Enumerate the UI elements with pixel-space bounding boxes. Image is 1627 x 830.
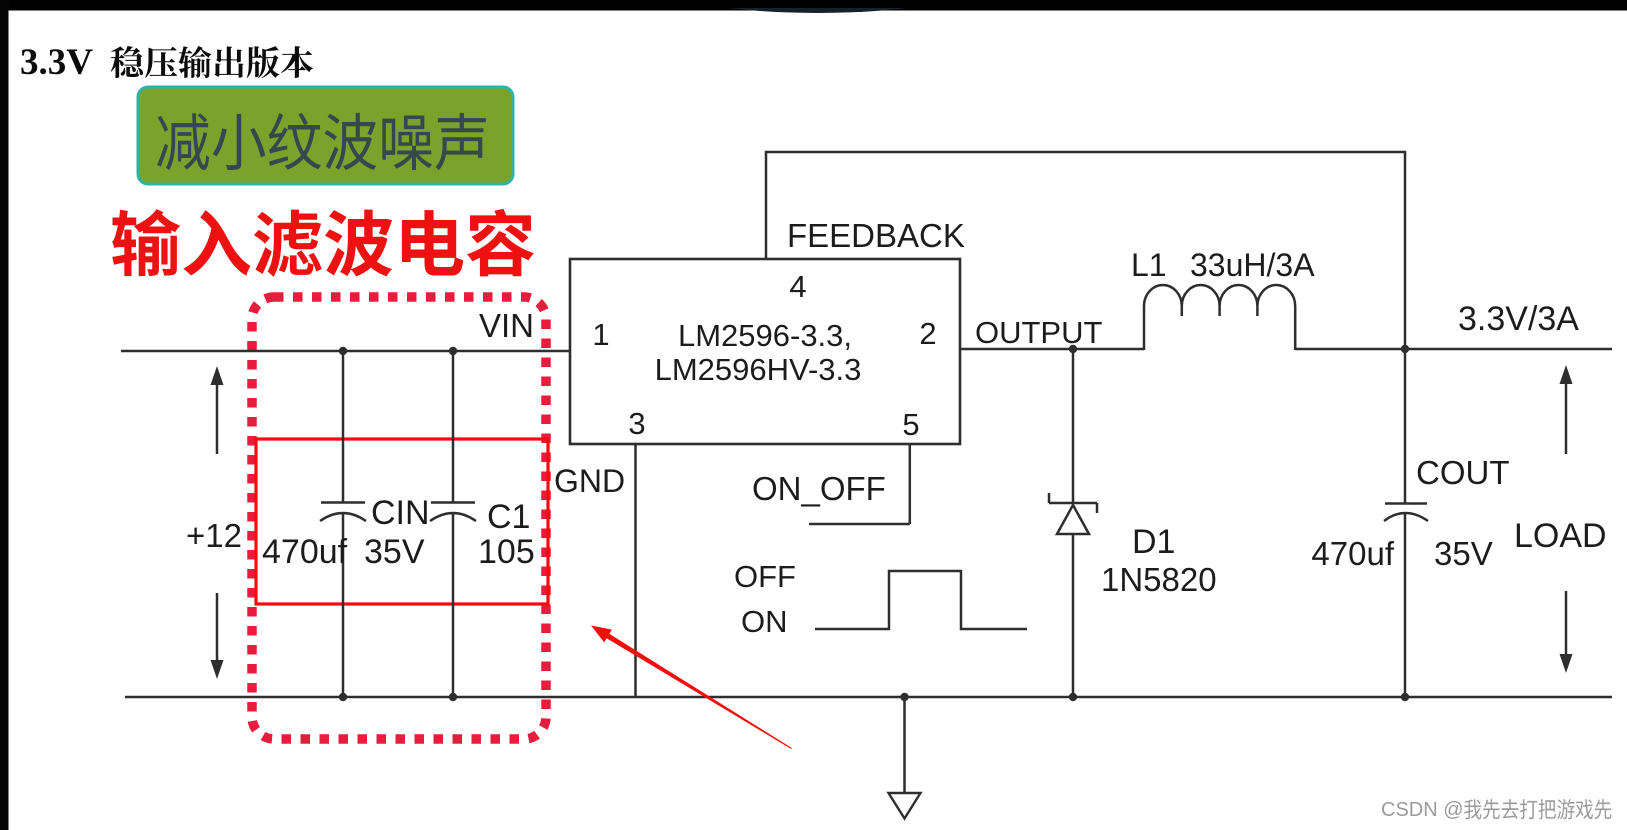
- feedback top wire: [765, 151, 1406, 154]
- wire: IC pin3 to ground rail: [634, 444, 637, 697]
- op IC U1 LM2596 box: [570, 259, 960, 444]
- green box text 减小纹波噪声: [157, 113, 486, 170]
- svg-text:ON: ON: [741, 604, 788, 639]
- wire: input top rail: [121, 350, 570, 353]
- svg-text:LM2596HV-3.3: LM2596HV-3.3: [655, 352, 862, 387]
- node: COUT tap: [1401, 345, 1409, 353]
- svg-text:L1: L1: [1131, 247, 1167, 283]
- node: CIN top junction: [339, 347, 347, 355]
- svg-text:35V: 35V: [1434, 535, 1493, 572]
- red label 输入滤波电容: [112, 209, 534, 277]
- capacitor C1: [452, 351, 455, 502]
- dark left edge strip: [0, 0, 9, 830]
- load down arrow: [1565, 591, 1568, 666]
- svg-text:5: 5: [902, 407, 919, 442]
- node: CIN bottom: [339, 693, 347, 701]
- ground symbol: [903, 697, 906, 793]
- wire: IC pin5 drop: [909, 444, 912, 524]
- svg-text:470uf: 470uf: [1311, 535, 1394, 572]
- node: diode tap on output: [1069, 345, 1077, 353]
- svg-text:CIN: CIN: [371, 494, 430, 532]
- svg-text:OFF: OFF: [734, 559, 796, 594]
- svg-text:CSDN @: CSDN @: [1381, 799, 1464, 821]
- svg-text:VIN: VIN: [479, 307, 534, 344]
- wire: pin5 horizontal stub: [809, 523, 910, 526]
- node: D1 bottom: [1069, 693, 1077, 701]
- load up arrow: [1565, 371, 1568, 454]
- inductor L1: [1144, 285, 1295, 350]
- svg-text:35V: 35V: [364, 533, 425, 571]
- svg-text:GND: GND: [554, 463, 625, 499]
- title CJK 稳压输出版本: [111, 46, 313, 78]
- svg-text:3: 3: [628, 406, 645, 441]
- node: C1 top junction: [449, 347, 457, 355]
- on/off pulse waveform: [815, 571, 1027, 629]
- svg-text:OUTPUT: OUTPUT: [975, 315, 1103, 350]
- capacitor COUT: [1385, 502, 1427, 505]
- svg-text:33uH/3A: 33uH/3A: [1190, 247, 1315, 283]
- svg-text:FEEDBACK: FEEDBACK: [787, 217, 965, 254]
- red dotted highlight box: [252, 297, 546, 739]
- wire: ground bottom rail: [125, 696, 1612, 699]
- svg-text:LOAD: LOAD: [1514, 517, 1607, 555]
- red annotation arrow: [591, 626, 792, 750]
- wire: pin2 to inductor: [960, 348, 1144, 351]
- svg-text:ON_OFF: ON_OFF: [752, 470, 886, 507]
- red solid highlight box: [256, 439, 548, 604]
- node: COUT bottom: [1401, 693, 1409, 701]
- watermark CJK: [1464, 799, 1611, 819]
- svg-text:+12: +12: [186, 517, 242, 554]
- capacitor CIN: [342, 351, 345, 502]
- wire: inductor to output right end: [1295, 348, 1612, 351]
- svg-text:3.3V/3A: 3.3V/3A: [1458, 300, 1579, 338]
- +12 source down arrow: [216, 593, 219, 672]
- node: C1 bottom: [449, 693, 457, 701]
- dark header bar: [0, 0, 1627, 11]
- svg-text:C1: C1: [487, 498, 530, 536]
- svg-text:3.3V: 3.3V: [20, 42, 93, 83]
- svg-text:470uf: 470uf: [262, 533, 348, 571]
- node: gnd symbol tap: [900, 693, 908, 701]
- feedback wire up from pin 4: [765, 151, 768, 259]
- +12 source up arrow: [216, 372, 219, 454]
- svg-text:1N5820: 1N5820: [1101, 561, 1217, 598]
- feedback right drop wire: [1404, 151, 1407, 503]
- green highlight box: [138, 87, 513, 184]
- svg-text:4: 4: [789, 269, 806, 304]
- svg-text:2: 2: [919, 316, 936, 351]
- svg-text:LM2596-3.3,: LM2596-3.3,: [678, 318, 852, 353]
- svg-text:COUT: COUT: [1416, 454, 1510, 491]
- diode D1 (schottky): [1072, 349, 1075, 504]
- svg-text:1: 1: [592, 317, 609, 352]
- svg-text:D1: D1: [1132, 523, 1175, 561]
- svg-text:105: 105: [478, 533, 535, 571]
